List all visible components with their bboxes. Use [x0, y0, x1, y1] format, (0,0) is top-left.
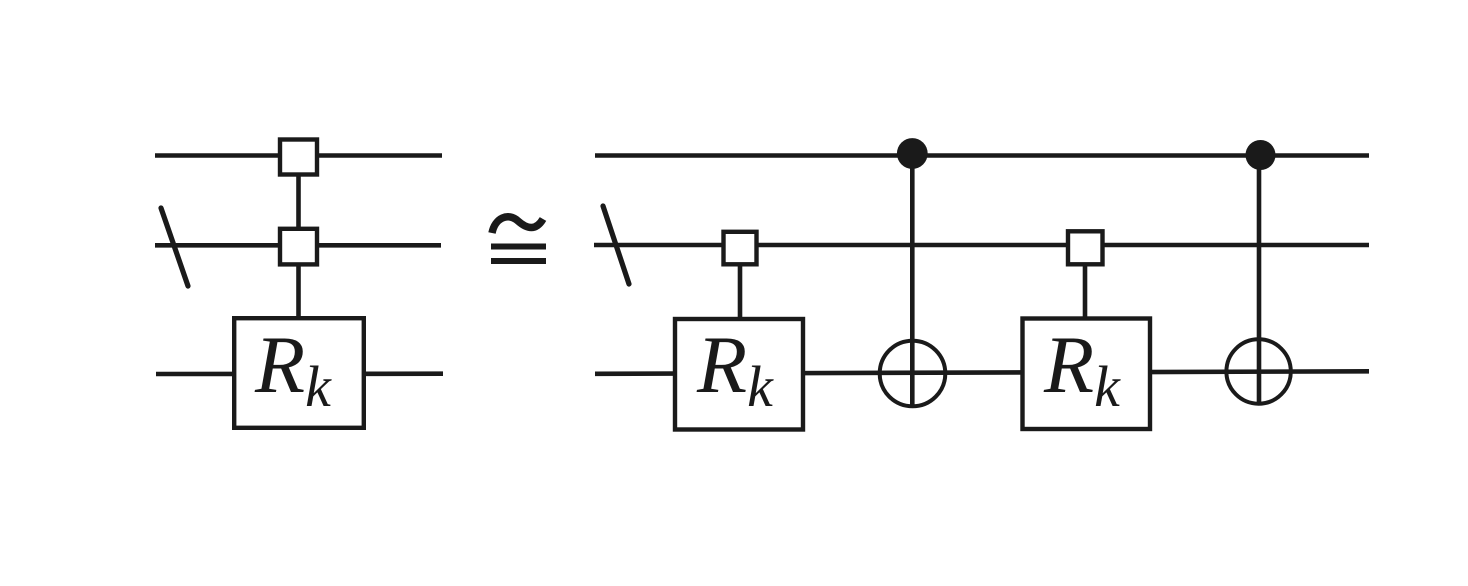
- filled control dot second CNOT: [1246, 140, 1276, 170]
- wire vertical CNOT link first: [910, 155, 915, 407]
- gate Rk first right circuit: [675, 319, 803, 430]
- open-square control second controlled-Rk: [1068, 231, 1103, 264]
- XOR target second CNOT: [1226, 339, 1290, 403]
- gate Rk second right circuit: [1023, 319, 1151, 430]
- wire vertical control link left circuit: [296, 160, 301, 320]
- wire vertical link square to first Rk gate: [738, 250, 743, 320]
- wire qubit-b right circuit: [594, 243, 1369, 248]
- wire qubit-b left circuit: [155, 243, 441, 248]
- open-square control first controlled-Rk: [724, 232, 757, 264]
- XOR target first CNOT: [880, 341, 946, 407]
- congruence symbol: [491, 217, 546, 264]
- filled control dot first CNOT: [897, 138, 928, 169]
- bus slash right circuit: [603, 206, 629, 284]
- wire qubit-c left circuit: [156, 371, 443, 376]
- wire qubit-a left circuit: [155, 153, 442, 158]
- open-square control on qubit-a: [280, 140, 317, 175]
- open-square control on qubit-b: [280, 229, 317, 265]
- wire qubit-c right circuit: [595, 371, 1369, 374]
- wire qubit-a right circuit: [595, 153, 1369, 158]
- wire vertical link square to second Rk gate: [1083, 250, 1088, 320]
- gate Rk left circuit: [234, 318, 364, 428]
- bus slash left circuit: [161, 208, 188, 286]
- wire vertical CNOT link second: [1257, 155, 1262, 404]
